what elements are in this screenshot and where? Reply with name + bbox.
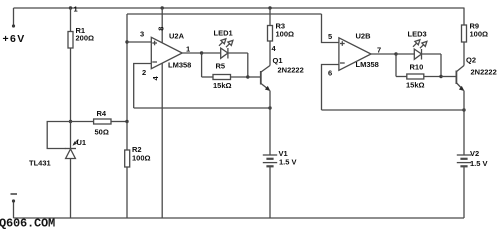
node R3 junction on top rail	[268, 6, 271, 9]
resistor R1	[68, 32, 73, 49]
wire R3 top lead	[269, 8, 271, 26]
svg-text:1: 1	[74, 5, 78, 14]
svg-text:4: 4	[151, 76, 160, 81]
svg-text:R10: R10	[410, 63, 424, 72]
op-amp U2B triangle	[339, 38, 371, 71]
svg-text:8: 8	[156, 27, 165, 31]
LED3 diode symbol	[414, 49, 421, 60]
resistor R3	[268, 26, 273, 42]
TL431 U1 shunt reference symbol	[65, 149, 76, 159]
wire Q1 emitter to battery	[269, 91, 271, 156]
op-amp U2A triangle	[151, 37, 182, 68]
wire R9 bottom lead to Q2 collector	[463, 42, 465, 66]
wire +6V supply stub	[13, 8, 15, 26]
wire LED3 cathode lead	[422, 53, 442, 55]
svg-text:Q1: Q1	[273, 56, 283, 65]
wire op-amp A pin 8 supply	[161, 8, 163, 43]
op-amp U2A minus input sign	[152, 61, 157, 63]
svg-text:TL431: TL431	[29, 159, 51, 168]
svg-text:Q2: Q2	[466, 56, 476, 65]
node feedback junction dot at V2 line	[462, 108, 465, 111]
wire op-amp B output	[371, 53, 396, 55]
svg-text:U2A: U2A	[169, 32, 185, 41]
wire top +6V rail	[14, 7, 465, 9]
wire R5 right lead	[231, 76, 248, 78]
transistor Q2 2N2222	[456, 66, 464, 92]
wire U2B pin 6 input loop	[322, 65, 339, 111]
wire op-amp A pin 3 input	[127, 41, 151, 43]
svg-text:2: 2	[142, 68, 146, 77]
svg-text:LM358: LM358	[168, 61, 191, 70]
node pin3 junction dot	[125, 40, 128, 43]
svg-text:R4: R4	[97, 109, 107, 118]
svg-text:LED1: LED1	[214, 29, 233, 38]
wire R5 left lead	[202, 76, 213, 78]
wire V2 negative lead to ground rail	[463, 166, 465, 218]
wire second reference rail	[127, 13, 322, 15]
wire LED1 right node vertical	[247, 53, 249, 77]
op-amp U2B minus input sign	[340, 62, 345, 64]
resistor R9	[462, 25, 467, 42]
node pin8 junction on top rail	[161, 6, 164, 9]
wire R3 bottom lead to Q1 collector	[269, 41, 271, 66]
wire Q2 base lead	[441, 76, 456, 78]
battery V1	[263, 155, 277, 166]
wire left box vertical (reference to pin 3)	[126, 14, 128, 122]
wire Q1 base lead	[248, 76, 261, 78]
wire LED3 left node vertical	[395, 54, 397, 77]
wire op-amp B feedback line to battery V2	[322, 109, 465, 111]
svg-text:2N2222: 2N2222	[278, 66, 304, 75]
wire R10 left lead	[396, 76, 407, 78]
wire R4 row	[71, 121, 128, 123]
svg-text:1.5 V: 1.5 V	[279, 158, 297, 167]
node negative terminal dot	[12, 199, 15, 202]
battery V2	[457, 155, 471, 166]
svg-text:15kΩ: 15kΩ	[213, 81, 232, 90]
wire LED1 left node vertical	[201, 53, 203, 77]
resistor R4	[94, 119, 111, 124]
wire LED1 anode lead	[202, 52, 221, 54]
svg-text:1: 1	[186, 45, 190, 54]
node +6V terminal dot	[12, 24, 15, 27]
wire TL431 reference loop	[47, 122, 70, 149]
svg-text:100Ω: 100Ω	[470, 30, 489, 39]
wire bottom ground rail	[14, 217, 465, 219]
svg-text:4: 4	[272, 44, 277, 53]
wire LED3 right node vertical	[440, 54, 442, 77]
node junction R1 on top rail	[69, 6, 72, 9]
wire negative supply stub	[13, 201, 15, 218]
wire TL431 cathode lead	[70, 122, 72, 149]
svg-text:LED3: LED3	[408, 30, 427, 39]
svg-text:2N2222: 2N2222	[471, 68, 497, 77]
wire op-amp A feedback line to battery	[134, 107, 270, 109]
svg-text:6: 6	[328, 69, 332, 78]
svg-text:R5: R5	[216, 62, 226, 71]
wire R2 bottom lead	[126, 167, 128, 218]
node R5 right junction dot	[246, 75, 249, 78]
wire op-amp A pin 4 to ground	[161, 63, 163, 218]
minus sign of supply	[11, 193, 18, 195]
node R10 right junction dot	[439, 75, 442, 78]
wire R2 top lead	[126, 122, 128, 151]
svg-text:LM358: LM358	[356, 60, 379, 69]
wire U2B pin5 from reference rail	[322, 14, 339, 43]
svg-text:Q606.COM: Q606.COM	[0, 217, 55, 230]
resistor R10	[407, 74, 424, 79]
LED1 diode symbol	[221, 48, 228, 59]
svg-text:15kΩ: 15kΩ	[406, 81, 425, 90]
svg-text:1.5 V: 1.5 V	[470, 159, 488, 168]
wire op-amp A pin 2 input loop	[134, 64, 152, 109]
svg-text:V2: V2	[470, 149, 479, 158]
op-amp U2B plus input sign	[340, 41, 345, 46]
op-amp U2A plus input sign	[152, 41, 157, 46]
wire V1 negative lead to ground rail	[269, 166, 271, 218]
svg-text:100Ω: 100Ω	[132, 154, 151, 163]
resistor R5	[213, 75, 231, 80]
wire LED1 cathode lead	[228, 52, 248, 54]
svg-text:+6V: +6V	[3, 33, 26, 45]
resistor R2	[125, 150, 130, 167]
wire R1 top lead	[70, 8, 72, 32]
node R4 right junction dot	[125, 120, 128, 123]
LED1 emission arrows	[219, 39, 233, 47]
svg-text:5: 5	[328, 32, 332, 41]
svg-text:U2B: U2B	[356, 32, 372, 41]
wire op-amp A output	[182, 52, 201, 54]
wire TL431 anode lead to ground rail	[70, 159, 72, 219]
node output B junction dot	[394, 52, 397, 55]
svg-text:3: 3	[140, 30, 144, 39]
LED3 emission arrows	[413, 40, 427, 48]
wire R9 top lead from rail corner	[463, 8, 465, 25]
node feedback junction dot at V1 line	[268, 106, 271, 109]
node output junction dot	[200, 51, 203, 54]
wire Q2 emitter to battery V2	[463, 91, 465, 156]
transistor Q1 2N2222	[261, 66, 271, 92]
svg-text:100Ω: 100Ω	[276, 30, 295, 39]
svg-text:200Ω: 200Ω	[76, 34, 95, 43]
wire R1 bottom lead down to divider node	[70, 48, 72, 122]
wire LED3 anode lead	[396, 53, 414, 55]
node divider junction dot	[69, 120, 72, 123]
annotation arrow at U1	[73, 140, 79, 146]
svg-text:U1: U1	[77, 138, 87, 147]
svg-text:50Ω: 50Ω	[95, 128, 109, 137]
wire R10 right lead	[424, 76, 441, 78]
svg-text:7: 7	[377, 46, 381, 55]
